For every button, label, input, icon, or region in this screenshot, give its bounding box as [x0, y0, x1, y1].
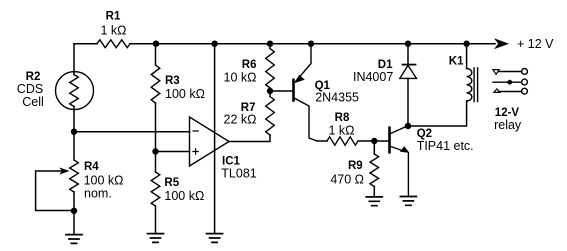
ground below Q2 emitter — [400, 197, 416, 206]
diode D1 IN4007 — [407, 44, 409, 126]
resistor R6 — [269, 44, 271, 91]
svg-text:relay: relay — [494, 118, 522, 132]
svg-text:1 kΩ: 1 kΩ — [100, 23, 126, 37]
resistor R7 — [266, 97, 275, 136]
resistor R3 — [155, 44, 157, 152]
svg-text:100 kΩ: 100 kΩ — [84, 173, 124, 187]
svg-text:nom.: nom. — [84, 187, 112, 201]
svg-text:12-V: 12-V — [495, 107, 520, 119]
node R6/R7 junction — [267, 88, 273, 94]
svg-text:K1: K1 — [449, 55, 464, 67]
wire to op-amp inverting input — [74, 131, 190, 133]
node inverting input junction — [71, 129, 77, 135]
wire R2 bottom to R4 top — [73, 109, 75, 160]
svg-text:22 kΩ: 22 kΩ — [224, 112, 257, 126]
svg-text:10 kΩ: 10 kΩ — [224, 70, 257, 84]
svg-text:TIP41 etc.: TIP41 etc. — [417, 139, 474, 153]
node Q2 collector junction — [405, 123, 411, 129]
resistor R8 — [327, 137, 358, 145]
svg-text:R9: R9 — [348, 160, 363, 172]
node IC1 supply junction — [211, 41, 217, 47]
svg-text:R2: R2 — [26, 71, 41, 83]
wire collector node to K1 bottom — [408, 101, 467, 126]
wire to op-amp non-inverting input — [156, 151, 190, 153]
node R6 top junction — [267, 41, 273, 47]
relay contact middle (common) — [493, 81, 521, 83]
resistor R5 — [155, 152, 157, 234]
wire top rail — [74, 43, 495, 45]
node R8/R9/Q2 base junction — [371, 138, 377, 144]
svg-text:R6: R6 — [242, 59, 257, 71]
transistor Q1 2N4355 — [292, 80, 295, 101]
svg-text:IN4007: IN4007 — [353, 70, 393, 84]
+12V supply arrow — [494, 38, 509, 49]
node D1 top junction — [405, 41, 411, 47]
resistor R9 — [373, 141, 375, 197]
relay contact top (NC) — [499, 71, 522, 73]
ground below IC1 — [207, 234, 223, 243]
resistor R4 potentiometer — [70, 160, 79, 192]
svg-text:D1: D1 — [378, 59, 393, 71]
op-amp IC1 TL081 — [190, 117, 230, 166]
node R1/R3 junction — [153, 41, 159, 47]
svg-text:R1: R1 — [106, 11, 121, 23]
svg-text:100 kΩ: 100 kΩ — [165, 87, 205, 101]
svg-text:+ 12 V: + 12 V — [517, 37, 554, 51]
svg-text:IC1: IC1 — [222, 155, 241, 167]
svg-text:TL081: TL081 — [221, 167, 256, 181]
svg-text:470 Ω: 470 Ω — [330, 172, 364, 186]
node R4 bottom junction — [71, 208, 77, 214]
resistor R2 CDS cell — [56, 72, 94, 110]
svg-text:CDS: CDS — [17, 82, 43, 96]
svg-text:R4: R4 — [84, 161, 99, 173]
svg-text:100 kΩ: 100 kΩ — [164, 189, 204, 203]
wire op-amp output — [229, 135, 270, 142]
node Q1 emitter junction — [308, 41, 314, 47]
svg-text:R3: R3 — [165, 75, 180, 87]
svg-text:R5: R5 — [164, 177, 179, 189]
transistor Q2 TIP41 — [388, 128, 391, 153]
ground below R9 — [366, 197, 382, 206]
ground below R5 — [148, 234, 164, 243]
node R3/R5 junction — [152, 148, 158, 154]
wire R4 wiper loop — [36, 171, 74, 211]
svg-text:1 kΩ: 1 kΩ — [328, 123, 354, 137]
ground below R4 — [66, 235, 82, 244]
wire left drop to R2 — [73, 44, 75, 73]
relay coil K1 — [463, 41, 469, 47]
relay contact bottom (NO) — [499, 91, 522, 93]
wire IC1 supply line — [214, 44, 216, 234]
svg-text:2N4355: 2N4355 — [315, 90, 359, 104]
svg-text:Cell: Cell — [22, 95, 44, 109]
wire R6/R7 junction to Q1 base — [270, 90, 292, 92]
resistor R1 — [97, 40, 130, 48]
